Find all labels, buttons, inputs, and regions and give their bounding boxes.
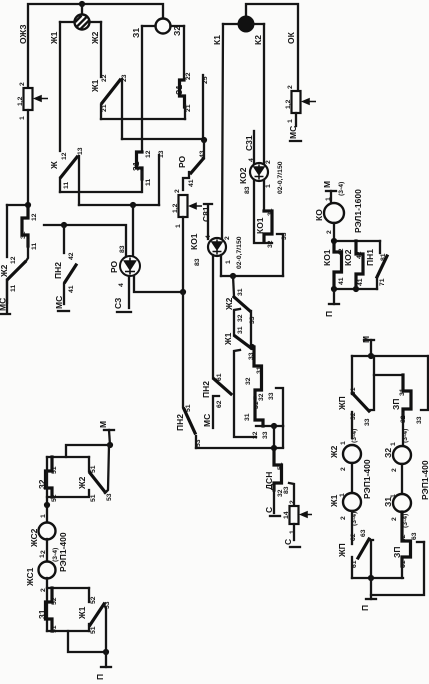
wire 53 up to М dot [105,445,109,493]
svg-text:П: П [324,311,334,317]
relay coil З2 РЭП1-400 [383,429,429,500]
svg-text:П: П [360,605,370,611]
node junction dot 110,445 [107,442,113,448]
node junction dot 204,140 [201,137,207,143]
node М terminal left [98,421,114,430]
svg-text:МС: МС [202,414,212,427]
relay coil З1 [383,494,411,528]
svg-text:32: 32 [245,377,252,385]
svg-text:63: 63 [360,529,367,537]
resistor 14 [283,500,312,534]
node junction dot 233,276 [230,273,236,279]
wire С81 net down [182,292,184,407]
svg-text:33: 33 [281,232,288,240]
svg-text:ЗП: ЗП [391,399,401,410]
wire stub pin 23 [121,79,123,139]
svg-text:З1: З1 [383,497,393,507]
svg-text:МС: МС [288,126,298,139]
wire between coils [46,539,48,562]
svg-text:1: 1 [225,260,232,264]
wire rail4 to П [68,631,106,652]
svg-text:2: 2 [287,85,294,89]
wire back-contact stub 63 З side [411,532,424,542]
svg-text:51: 51 [90,494,97,502]
svg-text:52: 52 [90,596,97,604]
node М (3-4) terminal [322,181,345,196]
wire bus y276 [221,275,283,277]
contact Ж2 (pins 12-11) [0,256,25,303]
contact КО2 right (pins 42-41) [343,241,364,289]
svg-text:КО1: КО1 [322,249,332,266]
contact ЖП upper (pins 31-32-33) [337,356,371,438]
svg-text:З1: З1 [131,28,141,38]
svg-text:КО1: КО1 [189,233,199,250]
node С terminal 2 [283,539,300,547]
node junction dot 274,426 [271,423,277,429]
lamp К (filled) [223,17,264,32]
pin 33 label [262,431,269,439]
node junction dot 371,578 [368,575,374,581]
svg-text:2: 2 [19,82,26,86]
svg-text:02-0,7/150: 02-0,7/150 [236,236,243,269]
contact ЗП upper (pins 31-32) [391,375,411,446]
contact З1 (pins 22-21) [174,72,192,119]
relay coil ЖС2 РЭП1-400 [29,514,68,572]
svg-text:Ж: Ж [49,161,59,170]
svg-text:83: 83 [244,186,251,194]
svg-text:К1: К1 [212,35,222,45]
svg-text:П: П [95,674,105,680]
svg-text:2: 2 [289,500,296,504]
svg-text:Ж2: Ж2 [0,264,9,278]
wire rail y289 [334,288,377,290]
contact Ж2 middle (pins 31-32-33) [224,288,256,324]
node МС terminal 3 [202,414,212,427]
svg-text:1,2: 1,2 [172,203,179,213]
svg-text:2: 2 [391,517,398,521]
svg-text:КО: КО [314,209,324,221]
svg-text:1: 1 [287,119,294,123]
wire КО pin2 down [333,223,335,241]
contact Ж1 (pins 22-21-23) [90,74,128,119]
svg-text:11: 11 [31,243,38,250]
wire bus y119 [101,118,185,120]
wire rail y356 [352,355,428,357]
wire 53 down to П dot [104,605,106,652]
svg-text:41: 41 [68,285,75,293]
svg-text:11: 11 [145,179,152,186]
svg-text:31: 31 [244,413,251,421]
svg-text:1: 1 [175,224,182,228]
node П terminal [324,304,339,317]
svg-text:1: 1 [40,514,47,518]
wire Ж1 [49,22,60,151]
node junction dot 183,292 [180,289,186,295]
relay coil Ж2 РЭП1-400 [329,429,372,499]
node junction dot 47,505 [44,502,50,508]
node junction dot 133,205 [130,202,136,208]
svg-text:Ж1: Ж1 [49,31,59,45]
node ОК [286,31,296,44]
svg-text:12: 12 [145,150,152,158]
svg-text:33: 33 [416,416,423,424]
wire З1 [131,26,142,151]
node П terminal left [95,667,111,680]
node junction dot 334,289 [331,286,337,292]
wire bus y205 [79,204,159,206]
svg-text:СЗ: СЗ [113,298,123,309]
svg-text:12: 12 [61,152,68,160]
svg-text:62: 62 [216,400,223,408]
wire y445 to rail [66,445,110,457]
svg-text:1: 1 [340,441,347,445]
svg-text:83: 83 [119,245,126,253]
svg-text:К2: К2 [253,35,263,45]
contact З2 middle (pins 31-32) [245,347,263,398]
svg-text:РЭП1-400: РЭП1-400 [420,460,429,500]
wire bus y225 [44,225,126,256]
contact ПН2 (pins 42-41) [53,225,76,304]
wire М drop [370,340,372,356]
svg-text:ПН1: ПН1 [365,249,375,266]
wire 63 tick to П net [369,540,373,578]
contact ДСН (pins 51-32) [264,448,284,513]
wire КО1 pin 1 down [220,255,222,276]
svg-text:М: М [98,421,108,428]
svg-text:11: 11 [10,285,17,292]
svg-text:(3-4): (3-4) [402,429,409,443]
node junction dot 64,225 [61,222,67,228]
svg-text:МС: МС [0,298,8,311]
contact КО1 right (pins 42-41) [322,241,345,289]
wire lamp Ж feed [81,4,83,15]
svg-text:2: 2 [174,189,181,193]
wire М drop to dot [109,430,110,445]
pin 32 label [252,431,259,439]
svg-text:25: 25 [202,76,209,84]
resistor С81 1-2 [172,189,202,228]
wire С81 stub [201,204,212,239]
svg-text:33: 33 [268,392,275,400]
wire resistor С feed pin 83 [283,483,294,506]
svg-text:ЖС1: ЖС1 [25,567,35,587]
wire bus y448 [196,447,283,449]
node МС terminal left [0,280,10,314]
wire ОК resistor to МС terminal [288,113,301,141]
svg-text:12: 12 [31,213,38,221]
wire left drop [6,205,8,257]
wire between З coils [401,464,403,494]
wire rail2 to ЖС2 [46,457,48,522]
wire К1 [212,24,223,239]
wire П drop [333,289,335,304]
svg-text:22: 22 [101,74,108,82]
svg-text:Ж1: Ж1 [329,494,339,508]
svg-text:РЭЛ1-1600: РЭЛ1-1600 [353,189,363,233]
resistor ОК 1-2 [285,85,316,123]
svg-text:2: 2 [340,467,347,471]
svg-text:1: 1 [390,442,397,446]
svg-text:63: 63 [411,532,418,540]
lamp З [142,19,184,34]
node junction dot 106,652 [103,649,109,655]
svg-text:53: 53 [106,493,113,501]
svg-text:РО: РО [177,155,187,168]
contact ПН1 (pins 81-71) [365,241,387,289]
svg-text:32: 32 [252,431,259,439]
wire КО2 pin 1 down [263,180,265,210]
node СЗ terminal [113,276,131,312]
wire rail y588 [47,587,89,589]
contact З1 lower (pins 12-11-13) [131,150,165,192]
svg-text:Ж1: Ж1 [90,79,100,93]
contact 32 (pins 12-32-11) [20,205,38,261]
wire РО pin1 to junction [134,276,183,292]
svg-text:РО: РО [109,260,119,273]
node П terminal right [360,599,376,611]
svg-text:42: 42 [68,252,75,260]
node junction dot 28,205 [25,202,31,208]
svg-text:83: 83 [194,258,201,266]
resistor ОЖЗ 1-2 [17,82,48,120]
svg-text:2: 2 [391,468,398,472]
wire Ж2 [90,22,101,77]
svg-text:71: 71 [379,278,386,286]
svg-text:31: 31 [237,288,244,296]
op-amp КО2 rectifier 02-0,7/150 [238,158,284,194]
svg-text:14: 14 [283,511,290,519]
contact З1 middle (pins 31-32-33) [244,393,265,426]
wire С81 resistor down [182,217,184,292]
svg-text:1: 1 [39,554,46,558]
svg-text:РЭП1-400: РЭП1-400 [58,532,68,572]
wire rail y578 [352,577,403,579]
node М terminal right [361,336,374,343]
svg-text:Ж2: Ж2 [224,297,234,311]
wire between Ж coils [351,463,353,493]
svg-text:Ж2: Ж2 [77,476,87,490]
node junction dot 371,356 [368,353,374,359]
wire ЖС1 to rail3 [46,578,48,631]
svg-text:32: 32 [237,314,244,322]
svg-text:1,2: 1,2 [285,99,292,109]
node junction dot 334,241 [331,238,337,244]
svg-text:(3-4): (3-4) [351,429,358,443]
contact Ж1 ladder (pins 52-51-53) [77,588,111,634]
node МС terminal 2 [54,296,69,311]
wire bus y205 left [7,204,28,206]
wire x274 to bus y448 [274,426,283,448]
svg-text:Ж1: Ж1 [223,332,233,346]
wire interlock y375 [374,374,403,376]
node ОЖЗ [18,24,28,44]
svg-text:32: 32 [258,393,265,401]
contact ЖП lower (pins 62-63-61) [337,511,369,578]
svg-text:З2: З2 [383,448,393,458]
svg-text:02-0,7/150: 02-0,7/150 [277,161,284,194]
contact ЗП lower (pins 62-61) [392,512,411,578]
wire П drop left [105,652,107,667]
contact Ж2 ladder (pins 51-53) [77,457,113,502]
svg-text:4: 4 [205,235,212,239]
svg-text:С31: С31 [244,135,254,151]
svg-text:С81: С81 [201,206,211,222]
wire stub pin 25 [202,75,209,139]
contact ПН2 upper (pins 61-62) [201,373,231,428]
svg-text:83: 83 [283,486,290,494]
svg-text:22: 22 [185,72,192,80]
svg-text:Ж1: Ж1 [77,606,87,620]
svg-text:КО2: КО2 [238,167,248,184]
wire rail y497 [47,490,89,497]
svg-text:41: 41 [188,179,195,187]
svg-text:С: С [264,507,274,513]
svg-text:З2: З2 [172,26,182,36]
wire back-contact stub 33 З side [416,356,428,424]
svg-text:Ж2: Ж2 [90,31,100,45]
svg-text:51: 51 [90,626,97,634]
op-amp РО rectifier [109,245,140,287]
svg-text:ПН2: ПН2 [175,414,185,431]
svg-text:33: 33 [364,418,371,426]
svg-text:РЭП1-400: РЭП1-400 [362,459,372,499]
relay coil ЖС1 [25,554,56,592]
wire rail y241 [334,240,380,242]
wire bus y139 [122,138,204,140]
contact КО1 (pins 31-32) [255,208,274,248]
svg-text:4: 4 [118,283,125,287]
wire stub pin 13 to bus y205 [158,155,160,205]
svg-text:2: 2 [224,236,231,240]
svg-text:МС: МС [54,296,64,309]
lamp Ж (hatched) [60,15,101,30]
wire ОЖЗ resistor to bus [27,110,29,205]
node junction dot above lamp Ж [79,1,85,7]
svg-text:33: 33 [262,431,269,439]
contact З2 ladder (pins 51-52) [37,457,58,502]
svg-text:11: 11 [63,182,70,189]
svg-text:ЖП: ЖП [337,543,347,558]
svg-text:2: 2 [326,230,333,234]
svg-text:ПН2: ПН2 [53,262,63,279]
svg-text:1: 1 [265,184,272,188]
wire bus y426 [256,425,283,427]
wire З2 [172,26,184,80]
svg-text:Ж2: Ж2 [329,445,339,459]
wire КО1 pin 83 down [212,255,214,378]
svg-text:2: 2 [340,516,347,520]
wire top bus right [246,4,298,91]
node junction dot 252,347 [249,344,255,350]
wire y595 З return [371,542,424,595]
svg-text:(3-4): (3-4) [338,182,345,196]
contact Ж (pins 12-11-13) [49,147,84,192]
wire stub pin 33 [277,232,288,276]
svg-text:31: 31 [237,326,244,334]
contact РО (pins 43-41) [177,140,206,190]
relay coil Ж1 [329,493,361,526]
svg-text:1,2: 1,2 [17,96,24,106]
svg-text:ЖП: ЖП [337,396,347,411]
svg-text:1: 1 [325,197,332,201]
svg-text:М: М [322,181,332,188]
svg-text:КО1: КО1 [255,217,265,234]
svg-text:С: С [283,539,293,545]
wire middle drop x234 [233,276,256,437]
svg-text:32: 32 [267,240,274,248]
wire back-contact stub 33 upper [369,356,374,410]
svg-text:ОЖЗ: ОЖЗ [18,24,28,44]
wire С31 stub [244,131,254,164]
wire bus y192 [60,191,141,193]
svg-text:2: 2 [265,160,272,164]
relay coil КО РЭЛ1-1600 [314,189,363,234]
wire stub 33 hook [268,388,283,426]
wire КО2 pin 83 down [254,180,272,243]
svg-text:4: 4 [248,158,255,162]
wire РО feed from dot [132,205,134,256]
svg-text:1: 1 [19,116,26,120]
wire К2 [253,24,264,164]
svg-text:41: 41 [357,278,364,286]
contact З1 ladder (pins 52-51) [37,588,58,633]
wire resistor to С terminal [293,524,295,540]
svg-text:ПН2: ПН2 [201,381,211,398]
svg-text:КО2: КО2 [343,249,353,266]
wire rail y631 [47,630,89,632]
svg-text:13: 13 [77,147,84,155]
node junction dot 274,448 [271,445,277,451]
wire rail y457 [47,456,89,458]
svg-text:ОК: ОК [286,31,296,44]
wire stub pin 13 [78,156,80,205]
node junction dot 356,289 [353,286,359,292]
op-amp КО1 rectifier 02-0,7/150 [189,233,243,269]
wire П drop right [370,578,372,599]
node С terminal [264,507,280,516]
wire КО coil feed [325,191,332,203]
wire top bus left [28,4,163,88]
wire Ж2-33 down [250,311,252,347]
contact Ж1 middle (pins 31-33) [223,326,255,360]
svg-text:41: 41 [338,277,345,285]
svg-text:12: 12 [10,256,17,264]
contact ПН2 lower (pins 51-53) [175,404,202,448]
